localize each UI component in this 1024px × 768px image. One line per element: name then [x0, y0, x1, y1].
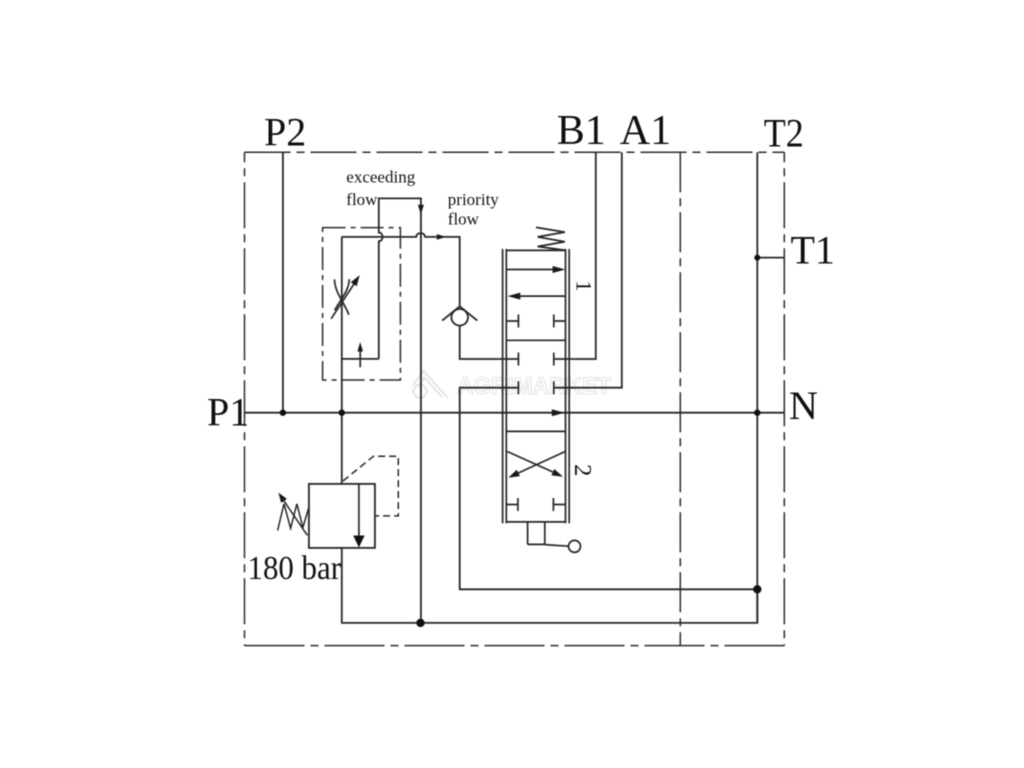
svg-text:N: N: [789, 383, 818, 428]
spool position 1 arrow right: [507, 269, 554, 271]
spool manual actuator: [528, 522, 545, 544]
spool valve outer rails: [503, 249, 570, 523]
enclosure bottom border: [245, 645, 785, 647]
wire P2: [282, 152, 284, 412]
svg-text:P1: P1: [207, 389, 249, 434]
svg-text:P2: P2: [264, 110, 306, 155]
svg-text:priority: priority: [448, 190, 499, 209]
wire exceeding flow with jump: [379, 198, 421, 623]
arrowhead priority flow: [437, 234, 446, 240]
relief valve internal arrow: [358, 484, 360, 536]
variable throttle adjust arrow: [331, 283, 354, 319]
variable throttle arcs: [334, 279, 349, 314]
enclosure left border: [244, 152, 246, 645]
svg-text:2: 2: [569, 464, 596, 476]
check valve seat: [442, 306, 477, 320]
wire spool T port to tank return: [460, 388, 758, 590]
spool valve spring: [536, 227, 565, 250]
svg-text:exceeding: exceeding: [346, 168, 415, 187]
check valve ball: [451, 309, 468, 326]
arrowhead exceeding flow down: [418, 205, 424, 215]
enclosure right border: [783, 152, 785, 645]
relief valve body: [309, 484, 375, 548]
spool valve top and bottom edges: [506, 250, 565, 522]
svg-text:A1: A1: [620, 108, 671, 154]
wire relief drain and exceeding to tank: [342, 548, 758, 623]
spool position 2 crossed arrows: [507, 452, 554, 473]
svg-text:T2: T2: [764, 110, 804, 155]
spool valve section dividers: [506, 340, 565, 431]
flow regulator internal up arrow: [359, 351, 361, 368]
svg-text:AGRIMARKET: AGRIMARKET: [457, 373, 611, 400]
wire T1 stub: [757, 257, 784, 259]
enclosure top border (valve block boundary): [245, 151, 785, 153]
svg-text:180 bar: 180 bar: [248, 550, 342, 587]
flow regulator body bottom edge: [342, 358, 379, 360]
spool neutral pass arrow head on P1-N line: [552, 409, 565, 416]
wire check valve to spool P port: [460, 326, 519, 359]
relief valve spring: [278, 504, 309, 531]
relief valve pilot line (dashed): [343, 456, 398, 516]
wire P1 to N main line: [245, 412, 785, 414]
spool P and B port stubs: [518, 353, 553, 366]
junction dot N: [754, 410, 760, 416]
spool T and A port stubs: [518, 381, 553, 394]
flow regulator enclosure (dash-dot box): [323, 228, 401, 380]
svg-text:flow: flow: [346, 190, 378, 209]
junction dot tank-T2: [753, 585, 761, 593]
spool blocked ports bottom row: [506, 498, 565, 511]
junction dot exceeding-tank: [416, 619, 424, 627]
svg-text:1: 1: [572, 280, 597, 291]
relief valve spring adjust arrow: [284, 500, 308, 535]
junction dot P1-divider: [339, 410, 345, 416]
junction dot T1: [754, 255, 760, 261]
wire B1: [554, 152, 596, 359]
svg-text:flow: flow: [448, 209, 480, 228]
junction dot P1-P2: [280, 410, 286, 416]
spool position 1 arrow left: [519, 295, 565, 297]
svg-text:B1: B1: [557, 108, 606, 154]
wire T2: [756, 152, 758, 623]
wire A1: [554, 152, 622, 387]
internal section divider (dash-dot): [679, 152, 681, 645]
wire priority flow with jump and down to check valve: [342, 233, 460, 306]
wire P1 feed to flow divider and relief valve: [341, 237, 343, 484]
spool blocked ports row 1: [506, 315, 565, 328]
svg-text:T1: T1: [791, 228, 835, 273]
